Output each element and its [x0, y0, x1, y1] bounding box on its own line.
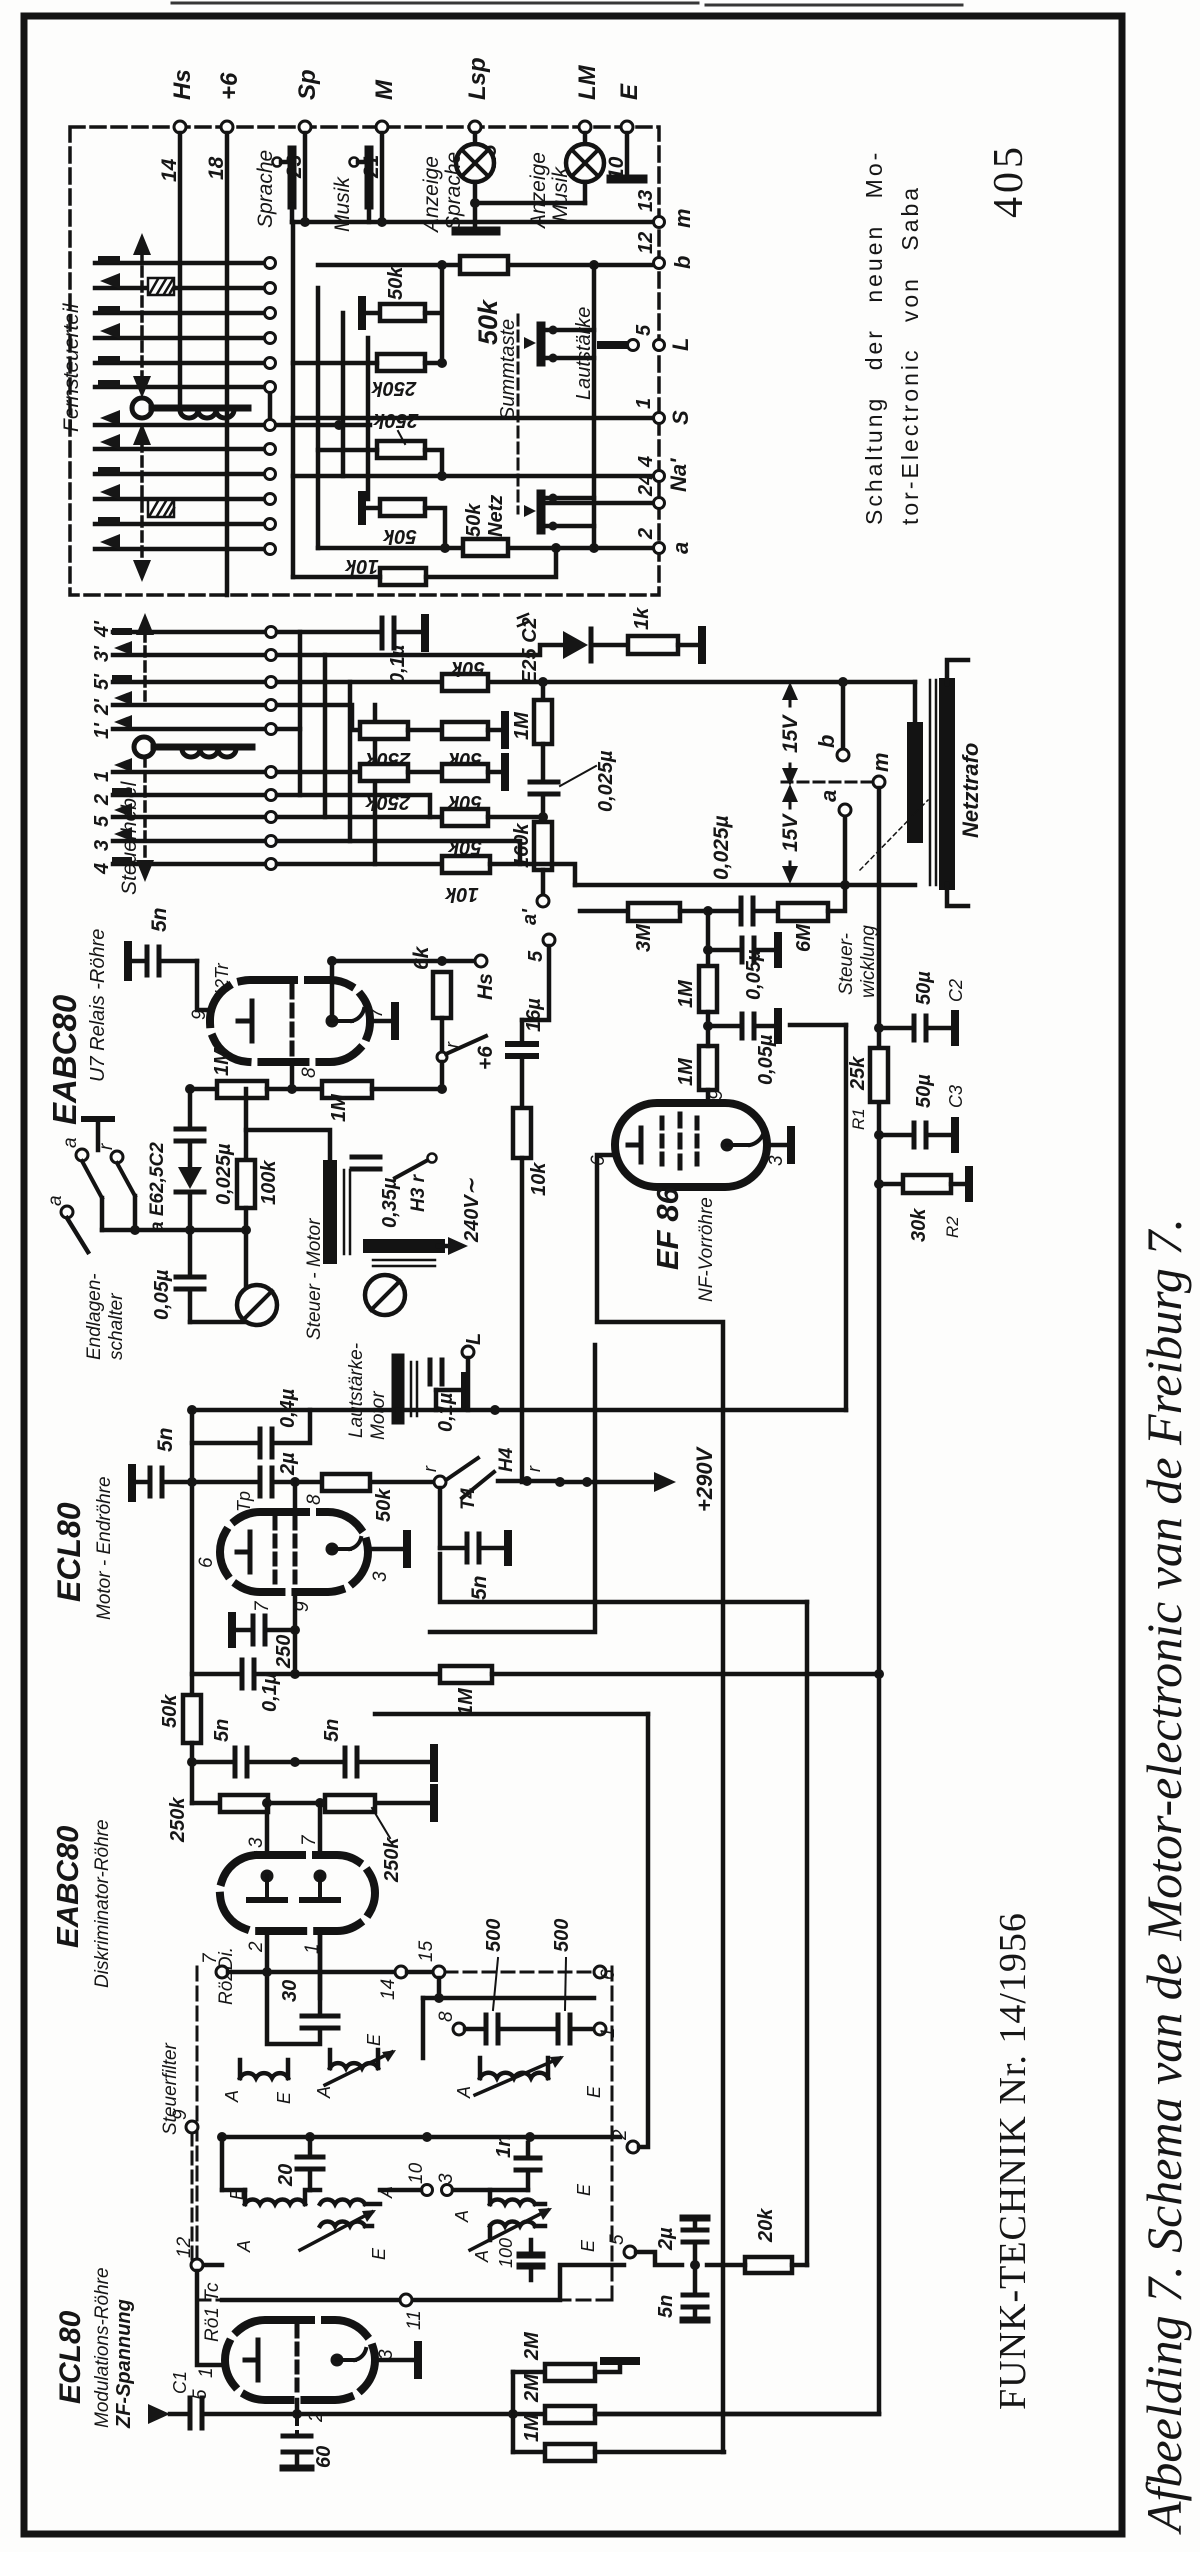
- svg-text:a: a: [45, 1195, 66, 1206]
- label EF 86: [650, 1187, 717, 1302]
- svg-text:a E62,5C2: a E62,5C2: [147, 1142, 168, 1232]
- svg-text:50k: 50k: [450, 657, 484, 679]
- svg-text:0,05µ: 0,05µ: [151, 1269, 173, 1320]
- svg-text:R1: R1: [849, 1108, 868, 1130]
- svg-text:Diskriminator-Röhre: Diskriminator-Röhre: [92, 1819, 113, 1988]
- terminal Sp pin 23: [283, 69, 321, 179]
- label EABC80 (discriminator): [50, 1819, 113, 1988]
- wire switch down to row8: [440, 1062, 445, 1089]
- wire grid up: [293, 1482, 298, 1512]
- svg-text:E: E: [274, 2091, 294, 2104]
- label Steuerhebel: [118, 780, 141, 895]
- svg-text:A: A: [454, 2086, 474, 2099]
- resistor 30k R2: [879, 1175, 962, 1242]
- trafo leader line: [860, 800, 928, 870]
- wire endlagen bottom: [190, 1230, 246, 1322]
- svg-text:Fernsteuerteil: Fernsteuerteil: [60, 302, 83, 432]
- wire triode grid down: [293, 1592, 298, 1630]
- wire row Hs: [332, 959, 474, 964]
- wire 18 down: [225, 133, 230, 595]
- svg-text:Musik: Musik: [549, 166, 572, 222]
- svg-text:0,1µ: 0,1µ: [259, 1672, 281, 1712]
- ECL80 pin3 ground: [368, 1534, 407, 1564]
- terminal a': [519, 870, 549, 925]
- resistor 250k E: [360, 764, 411, 813]
- svg-text:Hs: Hs: [169, 69, 196, 100]
- filter transformer right: [452, 2183, 598, 2268]
- svg-text:E: E: [227, 2187, 247, 2200]
- wire terminal 5 row: [636, 2252, 682, 2265]
- capacitor 500 a: [465, 1919, 556, 2043]
- wire top rail to trafo: [913, 682, 918, 728]
- svg-text:12: 12: [635, 232, 657, 254]
- coil A-E left: [222, 2060, 294, 2104]
- tube EF86: [615, 1103, 767, 1187]
- wire 16u top: [522, 946, 549, 1020]
- svg-text:b: b: [670, 256, 695, 269]
- svg-text:5n: 5n: [154, 1427, 177, 1452]
- resistor 1M (left): [190, 1047, 267, 1098]
- terminal 11: [400, 2294, 425, 2330]
- resistor 6k: [410, 945, 451, 1018]
- wire 6M right up to a: [828, 885, 845, 911]
- svg-text:250k: 250k: [373, 409, 419, 431]
- pin labels 3 7: [246, 1834, 320, 1848]
- resistor 50k A: [442, 657, 488, 691]
- svg-text:250: 250: [273, 1635, 295, 1669]
- svg-text:Steuerfilter: Steuerfilter: [160, 2042, 181, 2135]
- junction: [549, 326, 558, 531]
- relay tube pin7 ground: [370, 1006, 395, 1036]
- svg-text:2M: 2M: [521, 2373, 543, 2403]
- svg-text:16µ: 16µ: [523, 998, 545, 1032]
- svg-text:100k: 100k: [258, 1160, 280, 1205]
- Netztrafo primary winding bar: [907, 730, 923, 835]
- terminal Hs pin 14: [158, 69, 196, 182]
- dashed mid tap line: [782, 781, 872, 784]
- contact marks left column: [98, 256, 120, 550]
- lever row numbers: [91, 620, 113, 875]
- key wiper with coil: [132, 398, 248, 418]
- resistor 10k R7: [344, 555, 426, 585]
- svg-text:2M: 2M: [521, 2331, 543, 2361]
- wire row 2': [277, 705, 360, 730]
- svg-text:50µ: 50µ: [913, 1074, 935, 1108]
- svg-text:a: a: [60, 1137, 81, 1148]
- svg-text:0,35µ: 0,35µ: [379, 1177, 401, 1228]
- svg-text:L: L: [668, 338, 693, 351]
- terminal 9: [170, 2109, 198, 2133]
- terminal 12: [174, 2236, 203, 2271]
- 15V span arrow lower: [779, 784, 802, 884]
- svg-text:5n: 5n: [148, 907, 171, 932]
- wire pins 3 7 up: [267, 1803, 320, 1855]
- label Summtaste: [497, 319, 519, 420]
- wire row 12: [318, 263, 657, 268]
- resistor 1M c: [513, 2413, 724, 2461]
- lamp Anzeige Musik: [527, 133, 604, 230]
- junction: [703, 945, 713, 955]
- resistor 160k H: [511, 822, 552, 870]
- svg-text:E25 C2: E25 C2: [519, 617, 541, 684]
- terminal 61: [594, 1964, 619, 1980]
- svg-text:A: A: [452, 2210, 472, 2223]
- wire row 3: [277, 841, 520, 864]
- svg-text:405: 405: [986, 143, 1032, 218]
- terminal 2 edge: [610, 2129, 639, 2153]
- wire relay row: [102, 1228, 246, 1233]
- capacitor 0,05u shunt: [708, 911, 778, 1000]
- Steuer-Motor winding vertical: [330, 1167, 350, 1257]
- svg-text:1: 1: [196, 2367, 217, 2378]
- resistor 50k R1: [380, 266, 425, 321]
- resistor 250k R2: [371, 354, 425, 399]
- dashed row to 61: [445, 1971, 594, 1974]
- svg-text:E: E: [616, 83, 643, 100]
- wire 50k down to 5n row: [190, 1743, 195, 1762]
- svg-text:30k: 30k: [908, 1208, 930, 1242]
- Netztrafo core: [930, 680, 936, 885]
- svg-text:6M: 6M: [793, 923, 815, 952]
- svg-text:0,025µ: 0,025µ: [595, 750, 617, 812]
- ground R2: [951, 1170, 969, 1198]
- wire row 2190 mid: [380, 2188, 528, 2193]
- resistor 50k C: [442, 722, 488, 770]
- terminal Hs mid: [474, 955, 497, 1000]
- switch T4 H4: [420, 1447, 560, 1510]
- resistor 250k B: [360, 722, 411, 770]
- terminal LM pin 8: [574, 64, 609, 168]
- svg-text:10k: 10k: [344, 555, 378, 577]
- svg-text:L: L: [463, 1333, 485, 1345]
- svg-text:m: m: [670, 208, 695, 228]
- capacitor 500 b: [551, 1919, 594, 2043]
- wire row 24: [546, 501, 657, 506]
- svg-text:2': 2': [91, 698, 113, 716]
- terminal 8: [436, 2011, 465, 2035]
- terminal 15: [407, 1940, 445, 1978]
- capacitor series row: [741, 898, 778, 924]
- junction: [300, 217, 387, 227]
- capacitor 5n grid motor: [132, 1427, 192, 1498]
- svg-text:r: r: [524, 1465, 544, 1472]
- tube EABC80 discriminator: [220, 1855, 375, 1931]
- label Endlagenschalter: [84, 1273, 127, 1360]
- junction: [290, 1669, 300, 1679]
- capacitor 5n a: [211, 1719, 247, 1776]
- connector net names m b L S Na' a: [666, 208, 695, 554]
- junction: [187, 1405, 500, 1415]
- routing rail to terminal 2: [639, 1714, 648, 2147]
- wire row 1: [293, 416, 657, 421]
- svg-text:2: 2: [610, 2129, 631, 2141]
- bottom rail to trafo: [575, 883, 915, 888]
- terminal M pin 21: [360, 79, 398, 179]
- svg-text:2µ: 2µ: [277, 1452, 299, 1476]
- label EABC80 (relay): [46, 994, 83, 1125]
- Lautstaerke rail: [573, 265, 595, 548]
- junction: [185, 1084, 447, 1094]
- svg-text:0,4µ: 0,4µ: [277, 1388, 299, 1428]
- wire rail down: [190, 1762, 195, 1803]
- svg-text:5': 5': [91, 673, 113, 690]
- wire row 1762: [192, 1760, 430, 1765]
- resistor 6M: [778, 903, 828, 952]
- junction: [440, 543, 599, 553]
- tube ECL80 modulation: [225, 2320, 375, 2400]
- lever contact marks: [112, 628, 132, 864]
- label ECL80 (motor): [51, 1476, 115, 1620]
- coil A-E right with arrow: [454, 2056, 604, 2099]
- ground C: [488, 715, 505, 745]
- label Steuer-Motor: [304, 1218, 325, 1340]
- svg-text:24: 24: [635, 474, 657, 497]
- terminals 10 3: [406, 2162, 457, 2195]
- label Steuerfilter: [160, 2042, 181, 2135]
- wire 5n to pin9: [197, 961, 210, 1010]
- mod grid: [295, 2326, 300, 2394]
- wire row 13: [292, 220, 657, 225]
- wire 3M to 6M: [680, 909, 740, 914]
- wire row 2265 left: [197, 2263, 222, 2268]
- svg-text:3M: 3M: [633, 923, 655, 952]
- resistor 25k R1: [847, 1048, 888, 1130]
- svg-text:Lautstärke: Lautstärke: [573, 307, 595, 400]
- relay coil symbol: [84, 1119, 112, 1150]
- svg-text:50k: 50k: [159, 1694, 181, 1728]
- capacitor 1n: [493, 2135, 540, 2190]
- terminal 7 left: [200, 1952, 228, 1978]
- junction: [874, 1023, 884, 1033]
- wire I right then down: [490, 864, 575, 885]
- svg-text:2µ: 2µ: [655, 2227, 677, 2251]
- pin labels 2 1: [246, 1941, 323, 1954]
- Netztrafo secondary winding bar: [939, 686, 955, 882]
- wire row 4: [277, 862, 442, 867]
- wire row 1803: [192, 1801, 430, 1806]
- svg-text:3': 3': [91, 645, 113, 662]
- svg-text:Afbeelding 7. Schema van de Mo: Afbeelding 7. Schema van de Motor-electr…: [1136, 1218, 1192, 2535]
- svg-text:r: r: [420, 1465, 440, 1472]
- wire 12 to tube pin1: [197, 2271, 220, 2365]
- wire row 3' to diode: [277, 645, 563, 655]
- wire row R7: [293, 548, 556, 577]
- Summtaste contact upper: [524, 326, 594, 362]
- wire 14 down: [178, 133, 183, 408]
- junction: [437, 358, 447, 368]
- svg-text:14: 14: [158, 158, 181, 182]
- label 240V~: [461, 1177, 483, 1243]
- EF86 pin3 ground: [767, 1130, 791, 1160]
- svg-text:ZF-Spannung: ZF-Spannung: [113, 2299, 135, 2429]
- capacitor 5n (filter out): [655, 2295, 707, 2320]
- svg-text:2: 2: [635, 528, 657, 540]
- capacitor filter black: [520, 2240, 542, 2280]
- svg-text:1M: 1M: [511, 711, 533, 740]
- svg-text:15V: 15V: [779, 714, 802, 753]
- svg-text:5n: 5n: [655, 2295, 677, 2318]
- label Roe1Tp: [234, 1491, 254, 1545]
- junction: [217, 2132, 535, 2142]
- svg-text:a: a: [668, 542, 693, 554]
- svg-text:250k: 250k: [167, 1797, 189, 1843]
- wire pin7 up: [330, 961, 335, 1014]
- junction: [187, 1757, 300, 1767]
- resistor 50k R3: [460, 256, 508, 345]
- svg-text:10k: 10k: [444, 883, 478, 905]
- terminal 5 bar: [601, 340, 639, 351]
- caption: Afbeelding 7: [1136, 1218, 1192, 2535]
- capacitor 5n (relay grid): [128, 907, 197, 977]
- arrow 240V: [438, 1237, 468, 1255]
- svg-text:1n: 1n: [493, 2135, 515, 2158]
- left rail dashed to mod tube: [191, 2133, 194, 2259]
- svg-text:240V∼: 240V∼: [461, 1177, 483, 1243]
- svg-text:H4: H4: [496, 1447, 517, 1472]
- svg-text:15: 15: [416, 1940, 437, 1962]
- junction: [874, 1130, 884, 1679]
- svg-text:1: 1: [598, 2027, 619, 2038]
- resistor 100k: [237, 1089, 280, 1230]
- terminal E pin 10: [605, 83, 643, 180]
- svg-text:C3: C3: [946, 1085, 966, 1108]
- filter coil upper left: [222, 2186, 396, 2204]
- wire grid leak row: [293, 1630, 298, 1674]
- Fernsteuerteil dashed box: [70, 127, 659, 595]
- svg-text:Motor: Motor: [368, 1391, 389, 1440]
- ground F: [488, 757, 505, 787]
- svg-text:5n: 5n: [321, 1719, 343, 1742]
- svg-text:U7 Relais -Röhre: U7 Relais -Röhre: [87, 929, 109, 1082]
- resistor 1M D: [511, 682, 552, 744]
- svg-text:C1: C1: [170, 2371, 190, 2394]
- resistor 50k G: [442, 809, 488, 858]
- svg-text:A: A: [234, 2240, 254, 2253]
- Steuer-Motor rotor: [237, 1285, 277, 1325]
- svg-text:60: 60: [313, 2446, 335, 2468]
- svg-text:a: a: [816, 790, 841, 802]
- wire pin2: [295, 2400, 300, 2414]
- svg-text:1M: 1M: [675, 979, 697, 1008]
- switch Sprache: [254, 133, 305, 228]
- svg-text:9: 9: [189, 1009, 210, 1020]
- svg-text:EABC80: EABC80: [46, 994, 83, 1125]
- routing rail right mid: [805, 1602, 810, 2265]
- resistor 2M b: [521, 2373, 595, 2423]
- resistor 50k R5: [380, 499, 425, 547]
- resistor 10k (anode feed): [513, 1108, 550, 1196]
- svg-text:M: M: [371, 79, 398, 100]
- svg-text:7: 7: [366, 1006, 387, 1018]
- svg-text:m: m: [868, 752, 893, 772]
- wire row 1482: [192, 1480, 434, 1485]
- svg-text:15V: 15V: [779, 813, 802, 852]
- svg-text:EF 86: EF 86: [650, 1187, 685, 1270]
- matrix vertical wires: [293, 222, 368, 577]
- edge terminal numbers: [633, 190, 657, 540]
- Steuer-Motor feed wires: [246, 1130, 330, 1165]
- switch contacts a r: [45, 1137, 135, 1252]
- label ECL80 (mod): [54, 2267, 135, 2429]
- disc diode plates: [249, 1870, 338, 1901]
- steuerhebel matrix verticals: [300, 632, 375, 864]
- svg-text:E: E: [369, 2247, 389, 2260]
- wire link rows: [268, 393, 273, 419]
- svg-text:r: r: [96, 1143, 117, 1150]
- resistor 1M lower: [675, 1026, 717, 1090]
- ground R1: [362, 300, 380, 326]
- svg-text:+290V: +290V: [692, 1445, 717, 1512]
- svg-text:9: 9: [170, 2109, 191, 2120]
- label Roe2Tr: [212, 962, 232, 1012]
- resistor 50k vertical: [159, 1694, 201, 1743]
- svg-text:Schaltung der neuen Mo-: Schaltung der neuen Mo-: [861, 150, 887, 525]
- svg-text:0,025µ: 0,025µ: [710, 815, 733, 880]
- svg-text:3: 3: [370, 1571, 391, 1582]
- svg-text:500: 500: [551, 1919, 573, 1952]
- svg-text:11: 11: [404, 2310, 425, 2330]
- junction: [130, 1225, 251, 1235]
- svg-text:Anzeige: Anzeige: [527, 152, 550, 230]
- resistor 1M upper: [675, 950, 717, 1012]
- capacitor 0,35u motor: [352, 1157, 401, 1228]
- terminal m: [868, 752, 893, 788]
- coil variable mid with arrow: [314, 2033, 396, 2099]
- hatch pad upper: [148, 278, 174, 295]
- resistor 1M grid leak: [295, 1666, 879, 1716]
- 15V span arrow upper: [779, 682, 802, 786]
- mod anode: [331, 2349, 367, 2367]
- svg-text:schalter: schalter: [106, 1293, 127, 1360]
- svg-text:5: 5: [91, 815, 113, 827]
- svg-text:5n: 5n: [468, 1575, 491, 1600]
- svg-text:FUNK-TECHNIK Nr. 14/1956: FUNK-TECHNIK Nr. 14/1956: [992, 1912, 1034, 2410]
- svg-text:T4: T4: [458, 1487, 479, 1510]
- wire row 1410: [192, 1408, 846, 1413]
- wire E-F: [408, 770, 442, 775]
- wire pin8 down: [290, 1062, 295, 1089]
- routing rail anode loop: [430, 1345, 595, 1632]
- switch H3: [395, 1154, 437, 1213]
- Steuer-Motor winding horizontal: [370, 1246, 438, 1266]
- wire row R4: [318, 450, 442, 476]
- terminal a: [816, 790, 851, 880]
- mod pin3 ground: [375, 2345, 418, 2375]
- svg-text:H3 r: H3 r: [408, 1173, 429, 1212]
- svg-text:A: A: [314, 2086, 334, 2099]
- svg-text:6k: 6k: [410, 945, 433, 970]
- Lautstaerke-Motor winding: [398, 1360, 417, 1418]
- svg-text:13: 13: [635, 190, 657, 212]
- junction: [838, 677, 848, 687]
- title: Schaltung der neuen Motor-Electronic von Saba: [861, 150, 923, 525]
- resistor 20k: [745, 2208, 792, 2273]
- label Netztrafo: [958, 743, 983, 838]
- wire row 1': [277, 727, 300, 732]
- ground E: [611, 133, 643, 179]
- relay tube cathode: [238, 1001, 252, 1041]
- wire pin1 down: [318, 1931, 323, 1998]
- pin labels 1 3 2 5: [190, 2349, 397, 2423]
- svg-text:Sprache: Sprache: [442, 152, 465, 230]
- pin labels 6 7 9 3: [196, 1557, 391, 1612]
- wire row 1: [277, 770, 360, 775]
- svg-text:7: 7: [299, 1834, 320, 1846]
- +290V arrow: [555, 1445, 717, 1512]
- junction: [840, 880, 850, 890]
- contact row lines left: [95, 263, 270, 549]
- svg-text:S: S: [668, 410, 693, 425]
